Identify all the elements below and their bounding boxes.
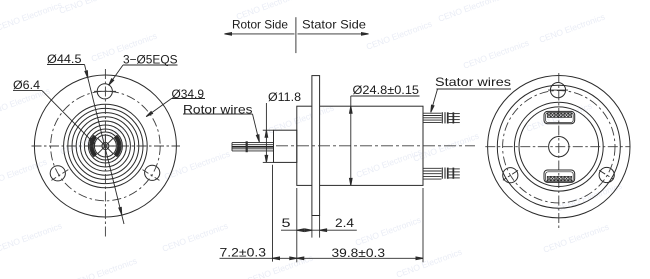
- stator wires bottom terminals: [447, 168, 449, 179]
- left view: flange outer circle (Ø44.5 flange): [34, 75, 176, 217]
- right view: outer flange circle: [488, 76, 630, 218]
- svg-text:CENO Electronics: CENO Electronics: [163, 149, 231, 182]
- dim line 5 / 2.4: [281, 229, 357, 231]
- left view: bore spokes: [94, 145, 116, 147]
- extension lines bottom dims: [272, 165, 274, 262]
- left view: hub hatched band left/right: [89, 135, 121, 157]
- right view: vertical centerline: [558, 73, 560, 231]
- svg-text:Ø24.8±0.15: Ø24.8±0.15: [353, 83, 420, 97]
- svg-text:39.8±0.3: 39.8±0.3: [332, 246, 386, 260]
- svg-text:CENO Electronics: CENO Electronics: [365, 19, 433, 52]
- svg-text:CENO Electronics: CENO Electronics: [462, 38, 530, 71]
- dim Ø24.8 line and arrows: [350, 96, 352, 185]
- svg-text:Stator Side: Stator Side: [302, 17, 366, 31]
- stator wires bottom bundle: [423, 167, 442, 169]
- left view: top hole centerline tick: [94, 90, 116, 92]
- middle view horizontal centerline: [276, 145, 475, 147]
- rotor side arrow: [225, 33, 295, 35]
- svg-text:CENO Electronics: CENO Electronics: [538, 12, 606, 45]
- left view: 3 mounting holes 3-Ø5EQS: [97, 84, 112, 99]
- dim line 7.2 / 39.8: [220, 257, 424, 259]
- svg-text:CENO Electronics: CENO Electronics: [0, 221, 63, 254]
- svg-text:CENO Electronics: CENO Electronics: [354, 215, 422, 248]
- right view: bottom connector: [544, 170, 575, 182]
- left view: horizontal centerline: [32, 145, 181, 147]
- stator wires top terminals: [447, 112, 449, 123]
- svg-text:CENO Electronics: CENO Electronics: [70, 256, 138, 279]
- left view: slip ring track circles: [64, 104, 148, 188]
- stator wires top bundle: [423, 112, 442, 114]
- svg-text:CENO Electronics: CENO Electronics: [437, 0, 505, 24]
- svg-text:Rotor Side: Rotor Side: [232, 18, 288, 32]
- svg-text:Ø6.4: Ø6.4: [13, 78, 40, 92]
- stator body rectangle: [297, 106, 423, 185]
- right view: horizontal centerline: [485, 146, 629, 148]
- svg-text:CENO Electronics: CENO Electronics: [267, 103, 335, 136]
- leader Ø44.5 diameter line: [47, 64, 85, 66]
- dim Ø11.8 extension lines: [263, 129, 274, 131]
- svg-text:CENO Electronics: CENO Electronics: [0, 157, 48, 190]
- svg-text:3−Ø5EQS: 3−Ø5EQS: [123, 52, 178, 66]
- svg-text:Stator wires: Stator wires: [435, 75, 511, 89]
- right view: lower hole radial ticks: [503, 170, 518, 180]
- svg-text:Ø11.8: Ø11.8: [268, 90, 301, 104]
- right view: center shaft circle: [549, 137, 569, 157]
- rotor cap: [274, 130, 297, 162]
- leader Rotor wires: [183, 113, 253, 115]
- svg-text:CENO Electronics: CENO Electronics: [395, 247, 463, 279]
- right view: top hole tick: [548, 89, 568, 91]
- left view: vertical centerline: [104, 69, 106, 237]
- leader Stator wires: [437, 88, 512, 90]
- svg-text:CENO Electronics: CENO Electronics: [0, 0, 63, 33]
- svg-text:CENO Electronics: CENO Electronics: [355, 147, 423, 180]
- rotor/stator divider line: [295, 17, 297, 53]
- stator side arrow: [298, 33, 369, 35]
- mounting flange plate: [312, 76, 320, 216]
- svg-text:Rotor wires: Rotor wires: [183, 102, 253, 116]
- rotor wire collar band: [246, 141, 248, 152]
- svg-text:Ø44.5: Ø44.5: [47, 52, 82, 66]
- rotor wires bundle: [232, 142, 274, 144]
- svg-text:5: 5: [282, 216, 292, 230]
- leader Ø6.4: [13, 90, 42, 92]
- svg-text:CENO Electronics: CENO Electronics: [412, 131, 480, 164]
- right view: top connector: [544, 111, 575, 123]
- svg-text:CENO Electronics: CENO Electronics: [542, 222, 610, 255]
- right view: stator housing circles: [514, 102, 603, 191]
- right view: 3 mounting holes: [550, 83, 565, 98]
- left view: bolt circle Ø34.9 dash-dot: [51, 91, 161, 201]
- right view: bolt circle dash-dot: [503, 91, 615, 203]
- svg-text:7.2±0.3: 7.2±0.3: [220, 245, 267, 259]
- leader 3-Ø5EQS: [123, 64, 178, 66]
- leader Ø34.9: [172, 98, 206, 100]
- dim Ø11.8 line and arrows: [265, 103, 267, 162]
- svg-text:2.4: 2.4: [335, 216, 355, 230]
- left view: lower hole radial ticks: [51, 170, 68, 181]
- svg-text:Ø34.9: Ø34.9: [172, 87, 205, 101]
- svg-text:CENO Electronics: CENO Electronics: [58, 0, 126, 16]
- dim Ø24.8 text underline: [351, 95, 420, 97]
- right view: inner flange circle: [497, 85, 620, 208]
- left view: center bore circle Ø6.4: [94, 135, 116, 157]
